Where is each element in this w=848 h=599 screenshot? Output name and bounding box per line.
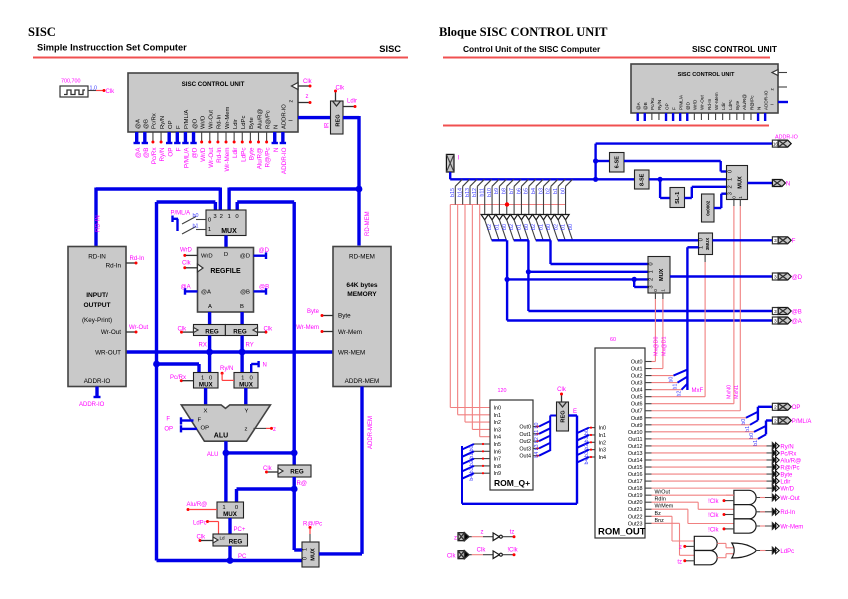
svg-text:Out17: Out17 [628, 479, 643, 485]
tap b5 [529, 179, 536, 186]
svg-text:WR-OUT: WR-OUT [95, 350, 121, 357]
svg-text:Wr-Out: Wr-Out [101, 329, 121, 336]
svg-text:z: z [679, 545, 682, 551]
svg-text:@D: @D [192, 147, 199, 158]
svg-text:ROM_Q+: ROM_Q+ [494, 478, 530, 488]
svg-text:b1: b1 [584, 436, 590, 442]
svg-text:b2: b2 [534, 437, 540, 443]
svg-text:1: 1 [649, 270, 655, 273]
wire M5 out to ADDR-MEM [319, 552, 362, 555]
svg-text:MUX: MUX [221, 228, 237, 235]
svg-text:@A: @A [636, 101, 641, 110]
svg-text:R@/Pc: R@/Pc [303, 522, 322, 528]
svg-text:Simple Instrucction Set Comput: Simple Instrucction Set Computer [37, 43, 187, 53]
port P/ML/A [772, 417, 778, 424]
svg-text:b2: b2 [487, 224, 493, 230]
A5 tz stub [683, 559, 686, 562]
svg-text:MUX: MUX [223, 511, 238, 518]
REGFILE @B port stub [254, 290, 267, 292]
svg-text:z: z [289, 100, 295, 103]
group1 bus [492, 239, 507, 241]
svg-text:Out14: Out14 [628, 458, 643, 464]
svg-text:OP: OP [167, 148, 174, 157]
mux M6 (N select) [727, 166, 748, 200]
A3 !Clk stub [723, 527, 726, 530]
svg-text:In9: In9 [494, 471, 502, 477]
svg-text:Wr/D: Wr/D [200, 147, 207, 162]
wires Out8-9 taps to OP bus [652, 417, 747, 419]
svg-text:Mx@D0: Mx@D0 [654, 336, 660, 356]
svg-text:b1: b1 [561, 224, 567, 230]
svg-text:Out5: Out5 [631, 395, 643, 401]
register RY (REG) [225, 325, 257, 336]
svg-text:16: 16 [773, 141, 779, 146]
svg-text:SISC: SISC [28, 25, 56, 39]
port Ry/N [772, 443, 776, 449]
svg-text:ADDR-IO: ADDR-IO [84, 378, 111, 385]
svg-text:In4: In4 [599, 455, 607, 461]
port @B [772, 308, 778, 315]
svg-text:Rd-In: Rd-In [707, 98, 712, 110]
svg-text:1: 1 [208, 227, 211, 233]
svg-text:ALU: ALU [207, 452, 219, 458]
main instruction bus wire (left) [96, 187, 220, 190]
svg-text:1: 1 [303, 548, 309, 551]
svg-text:SISC CONTROL UNIT: SISC CONTROL UNIT [182, 81, 245, 88]
svg-text:b0: b0 [502, 224, 508, 230]
svg-text:@D: @D [792, 275, 803, 281]
state register REG E [557, 402, 569, 431]
svg-text:LdPc: LdPc [193, 521, 207, 527]
wire M3 out to ALU Y [244, 388, 247, 405]
tap b8 [507, 179, 514, 186]
wire bus to MUX pin1 [227, 188, 230, 211]
svg-text:120: 120 [498, 388, 507, 394]
svg-text:MUX: MUX [311, 548, 317, 561]
ripper triangle group3 b2 [525, 215, 532, 220]
svg-text:Out2: Out2 [519, 439, 531, 445]
svg-text:tz: tz [510, 530, 515, 536]
svg-text:X: X [204, 409, 208, 415]
svg-text:b0: b0 [524, 224, 530, 230]
port OP [772, 403, 778, 410]
A4 out to OR [717, 542, 726, 544]
svg-text:MxN0: MxN0 [727, 385, 733, 399]
port Wr/D [772, 485, 776, 491]
svg-text:REG: REG [229, 539, 243, 546]
svg-text:OP: OP [168, 120, 174, 129]
svg-text:REG: REG [336, 114, 342, 126]
3MUX out to F port [713, 239, 773, 241]
svg-text:Out9: Out9 [631, 423, 643, 429]
svg-text:B: B [240, 304, 244, 310]
tap Out4 b4 [533, 455, 539, 457]
svg-text:In1: In1 [599, 433, 607, 439]
ROM_Q+ output bus to REG [549, 416, 551, 422]
tap ROM_OUT In0 b0 [577, 428, 589, 434]
ROM_Q+ feedback bus taps In5-In9 [461, 446, 463, 504]
svg-text:Byte: Byte [780, 472, 793, 478]
ripper triangle group3 b0 [540, 215, 547, 220]
tap ROM_OUT In1 b1 [577, 435, 589, 441]
svg-text:1: 1 [241, 375, 244, 381]
tap In7 b2 [462, 459, 474, 465]
svg-text:Out18: Out18 [628, 486, 643, 492]
wire group1 to @A port [507, 319, 772, 321]
svg-text:N: N [756, 107, 761, 110]
svg-text:Out8: Out8 [631, 416, 643, 422]
wire ADDR-IO line [596, 142, 773, 144]
svg-text:Alu/R@: Alu/R@ [780, 458, 801, 464]
svg-text:Wr/D: Wr/D [780, 487, 794, 493]
tap b7 [514, 179, 521, 186]
A3 out to Wr-Mem port [756, 525, 772, 527]
svg-text:Clk: Clk [197, 535, 207, 541]
mux M1 (4-1 above REGFILE) [206, 210, 246, 236]
svg-text:N: N [273, 147, 280, 152]
wire In3 (red) [471, 205, 473, 430]
group3 bus [536, 239, 551, 241]
svg-text:Y: Y [245, 409, 249, 415]
svg-text:In1: In1 [494, 413, 502, 419]
field bus group1 vertical [506, 240, 508, 320]
svg-text:F: F [166, 417, 170, 423]
svg-text:Wr-Out: Wr-Out [700, 95, 705, 110]
svg-text:R@: R@ [297, 481, 307, 487]
svg-text:SISC CONTROL UNIT: SISC CONTROL UNIT [692, 44, 778, 54]
svg-text:ADDR-MEM: ADDR-MEM [345, 378, 380, 385]
svg-text:Clk: Clk [182, 261, 192, 267]
svg-text:z: z [481, 530, 484, 536]
wire MUX pin0 to R@ vertical [237, 200, 294, 203]
svg-text:b2: b2 [531, 224, 537, 230]
svg-text:Clk: Clk [303, 79, 313, 85]
svg-text:Wr-Mem: Wr-Mem [224, 148, 231, 172]
SISC CONTROL UNIT block U3 (right) [631, 64, 778, 113]
ripper triangle group4 b2 [547, 215, 554, 220]
svg-text:Byte: Byte [338, 313, 351, 320]
field bus F to 3MUX [558, 239, 699, 241]
mux M5 0-1 (address select) [302, 542, 319, 567]
svg-text:!Clk: !Clk [708, 513, 719, 519]
svg-text:Pc/Rx: Pc/Rx [780, 451, 796, 457]
svg-text:!Clk: !Clk [507, 548, 518, 554]
svg-text:b4: b4 [534, 452, 540, 458]
ripper triangle group4 b0 [562, 215, 569, 220]
sign extender 6-SE [596, 160, 610, 162]
svg-text:@A: @A [136, 119, 142, 129]
wire RdIn to gate A2 [652, 501, 699, 503]
svg-text:MUX: MUX [239, 382, 254, 389]
svg-text:ADDR-IO: ADDR-IO [79, 402, 105, 408]
svg-text:Pc/Rx: Pc/Rx [650, 97, 655, 110]
OR gate O1 (LdPc) [732, 543, 756, 558]
svg-text:SL-1: SL-1 [675, 192, 681, 204]
wire RY down [240, 336, 243, 373]
svg-text:!Clk: !Clk [708, 528, 719, 534]
MEM Byte stub [323, 315, 333, 317]
wire ALU vertical to M4 [224, 453, 227, 502]
wire In0 (red) [449, 205, 451, 408]
svg-text:b1: b1 [517, 224, 523, 230]
svg-text:INPUT/: INPUT/ [86, 292, 108, 299]
tap Out3 b3 [533, 447, 539, 449]
svg-text:LdPc: LdPc [240, 147, 247, 161]
svg-text:REG: REG [205, 329, 219, 336]
svg-text:2: 2 [220, 214, 223, 220]
field bus group2 vertical [527, 240, 529, 311]
svg-text:Rd-In: Rd-In [216, 147, 223, 163]
wire R@ out [293, 477, 296, 550]
svg-text:z: z [245, 427, 248, 433]
svg-text:A: A [208, 304, 212, 310]
M1 select taps b0 b1 [182, 217, 196, 225]
svg-text:b3: b3 [469, 467, 475, 473]
tap b12 [477, 179, 484, 186]
svg-text:Ldir: Ldir [347, 99, 357, 105]
wire WrOut to gate A1 [652, 494, 734, 496]
register file REGFILE [198, 248, 254, 313]
svg-text:F: F [175, 147, 182, 151]
svg-text:@A: @A [135, 147, 142, 158]
clock generator G1 [60, 86, 88, 97]
svg-text:In0: In0 [599, 426, 607, 432]
svg-text:In0: In0 [494, 406, 502, 412]
svg-text:Bloque SISC CONTROL UNIT: Bloque SISC CONTROL UNIT [439, 25, 608, 39]
svg-text:b1: b1 [673, 384, 679, 390]
svg-text:@A: @A [181, 285, 191, 291]
svg-text:P/ML/A: P/ML/A [792, 419, 812, 425]
svg-text:RD-MEM: RD-MEM [349, 254, 375, 261]
svg-text:Out4: Out4 [519, 454, 531, 460]
port Ldir [772, 478, 776, 484]
bus junction to RD-MEM [356, 186, 363, 193]
svg-text:700,700: 700,700 [61, 79, 81, 85]
wire bus to RD-IN [94, 188, 97, 247]
ROM_OUT output stubs [645, 361, 652, 363]
wire PC line to left mux [157, 362, 200, 365]
svg-text:R@/Pc: R@/Pc [780, 465, 799, 471]
P/ML/A bus to port [765, 421, 767, 435]
svg-text:Out15: Out15 [628, 465, 643, 471]
wire I port down [449, 172, 451, 179]
mux M2 Pc/Rx [194, 373, 219, 389]
svg-text:N: N [263, 363, 267, 369]
svg-text:P/ML/A: P/ML/A [678, 94, 683, 110]
svg-text:b1: b1 [534, 430, 540, 436]
wire B to REG RY [240, 312, 243, 325]
svg-text:b1: b1 [745, 426, 751, 432]
port ADDR-IO (right) [772, 140, 778, 147]
svg-text:ALU: ALU [214, 433, 228, 440]
3MUX select wire MxF [704, 255, 706, 263]
svg-text:RD-IN: RD-IN [88, 254, 106, 261]
wire bus to MUX pin3 [157, 200, 216, 203]
mux M4 Alu/R@ [217, 502, 244, 518]
svg-text:Rd-In: Rd-In [780, 510, 795, 516]
svg-text:2: 2 [774, 405, 777, 410]
svg-text:Alu/R@: Alu/R@ [257, 148, 264, 170]
wire M6 out to N port [748, 182, 773, 184]
svg-text:b1: b1 [193, 224, 199, 230]
svg-text:b4: b4 [584, 459, 590, 465]
svg-text:1: 1 [699, 246, 705, 249]
svg-text:(Key-Print): (Key-Print) [82, 317, 112, 324]
svg-text:6-SE: 6-SE [615, 156, 621, 169]
wire 8-SE out to NMUX pin1 [649, 178, 727, 180]
wire bus to MUX pin2 [219, 188, 222, 211]
wire A to REG RX [208, 312, 211, 325]
svg-text:b0: b0 [568, 224, 574, 230]
M7 selects Mx@D0 Mx@D1 [654, 293, 656, 299]
tap b14 [463, 179, 470, 186]
tap In8 b3 [462, 466, 474, 472]
svg-text:@B: @B [643, 102, 648, 110]
wire Bnz to gate A5 [652, 522, 680, 524]
ALU z output wire [254, 427, 267, 429]
field bus group3 to @D mux pin0 [549, 240, 551, 264]
port Pc/Rx [772, 450, 776, 456]
wire Out14 to port Alu/R@ [652, 459, 767, 461]
SISC CONTROL UNIT block U1 (left) [128, 73, 298, 132]
port Wr-Mem [772, 523, 776, 529]
wire WrMem to gate A3 [652, 508, 688, 510]
AND gate A4 (Bz z) [694, 536, 717, 550]
wire ALU result bus [226, 451, 294, 454]
port F [772, 237, 778, 244]
svg-text:Out19: Out19 [628, 493, 643, 499]
svg-text:Out12: Out12 [628, 444, 643, 450]
tap b9 [499, 179, 506, 186]
A1 out to Wr-Out port [756, 497, 772, 499]
svg-text:b2: b2 [584, 444, 590, 450]
A1 !Clk stub [723, 499, 726, 502]
tap Out1 b1 [533, 433, 539, 435]
instruction bus wire (right) [450, 178, 634, 180]
svg-text:ADDR-IO: ADDR-IO [775, 135, 798, 141]
svg-text:F: F [671, 107, 676, 110]
svg-text:b0: b0 [749, 433, 755, 439]
svg-text:Out0: Out0 [519, 425, 531, 431]
ripper triangle group3 b1 [533, 215, 540, 220]
svg-text:REG: REG [290, 469, 304, 476]
ripper triangle group4 b1 [555, 215, 562, 220]
A2 !Clk stub [723, 513, 726, 516]
svg-text:b4: b4 [469, 475, 475, 481]
svg-text:b1: b1 [753, 440, 759, 446]
wire 6-SE out to NMUX pin0 [624, 160, 721, 162]
svg-text:MEMORY: MEMORY [347, 291, 377, 298]
svg-text:b0: b0 [546, 224, 552, 230]
wire In1 (red) [457, 205, 459, 415]
svg-text:60: 60 [610, 337, 616, 343]
svg-text:Wr/D: Wr/D [200, 116, 206, 129]
svg-text:3: 3 [774, 238, 777, 243]
svg-text:P/ML/A: P/ML/A [184, 147, 191, 168]
IO Wr-Out stub [126, 331, 135, 333]
wire In2 (red) [464, 205, 466, 423]
svg-text:Out2: Out2 [631, 374, 643, 380]
svg-text:Wr-Out: Wr-Out [780, 496, 800, 502]
svg-text:Byte: Byte [307, 309, 320, 315]
svg-text:Ld: Ld [220, 536, 226, 541]
svg-text:Control Unit of the SISC Compu: Control Unit of the SISC Computer [463, 44, 601, 54]
wire bus to RD-MEM [357, 189, 360, 246]
svg-text:tz: tz [677, 560, 682, 566]
svg-text:In8: In8 [494, 464, 502, 470]
svg-text:Wr-Out: Wr-Out [209, 110, 215, 129]
svg-text:Byte: Byte [735, 100, 740, 110]
svg-text:In4: In4 [494, 435, 502, 441]
svg-text:b0: b0 [469, 446, 475, 452]
tap b15 [455, 179, 462, 186]
svg-text:@D: @D [240, 254, 250, 260]
port R@/Pc [772, 464, 776, 470]
svg-text:MUX: MUX [659, 268, 665, 281]
tap ROM_OUT In2 b2 [577, 442, 589, 448]
svg-text:b0: b0 [584, 429, 590, 435]
svg-text:OP: OP [664, 103, 669, 110]
wires Out10-11 taps to P/ML/A bus [652, 431, 755, 433]
wire Out13 to port Pc/Rx [652, 452, 767, 454]
sign extender 8-SE [635, 170, 650, 189]
svg-text:IR: IR [325, 122, 331, 129]
svg-text:0: 0 [653, 289, 658, 292]
svg-text:ROM_OUT: ROM_OUT [598, 527, 646, 538]
AND gate A1 (Wr-Out) [734, 490, 756, 504]
svg-text:2: 2 [649, 278, 655, 281]
svg-text:REGFILE: REGFILE [210, 268, 241, 275]
svg-text:OP: OP [792, 405, 801, 411]
svg-text:OUTPUT: OUTPUT [83, 302, 110, 309]
shifter SL-1 [670, 188, 685, 208]
mux M7 (@D select) [648, 257, 670, 294]
svg-text:Ldir: Ldir [232, 148, 239, 159]
MEM Wr-Mem stub [323, 331, 333, 333]
svg-text:Out22: Out22 [628, 514, 643, 520]
svg-text:!Clk: !Clk [708, 499, 719, 505]
svg-text:z: z [454, 536, 457, 542]
svg-text:R@/Pc: R@/Pc [749, 95, 754, 110]
svg-text:3: 3 [774, 318, 777, 323]
OP bus to port [757, 407, 759, 421]
svg-text:LdPc: LdPc [780, 549, 794, 555]
svg-text:b0: b0 [669, 377, 675, 383]
junction dot b8 [505, 202, 509, 206]
svg-text:@D: @D [686, 101, 691, 110]
svg-text:Wr-Mem: Wr-Mem [714, 92, 719, 110]
U1 clk pin right [292, 83, 299, 90]
tap b6 [521, 179, 528, 186]
separator rule right panel [443, 125, 769, 127]
tap In5 b0 [462, 444, 474, 450]
wire Out6 to MxN0 [652, 403, 734, 405]
svg-text:Clk: Clk [106, 89, 116, 95]
svg-text:WrD: WrD [180, 248, 193, 254]
svg-text:@B: @B [259, 285, 269, 291]
svg-text:Mx@D1: Mx@D1 [662, 336, 668, 356]
svg-text:LdPc: LdPc [241, 116, 247, 129]
tap b10 [492, 179, 499, 186]
svg-text:D: D [224, 252, 228, 258]
wire pin2 jog to pin3 [632, 277, 637, 282]
svg-text:Wr-Mem: Wr-Mem [338, 329, 362, 336]
ROM_OUT block [595, 348, 645, 538]
wire Out15 to port R@/Pc [652, 466, 767, 468]
svg-text:b0: b0 [193, 213, 199, 219]
wire M1 out to REGFILE D [224, 236, 227, 248]
IR output bus wire [343, 116, 359, 119]
